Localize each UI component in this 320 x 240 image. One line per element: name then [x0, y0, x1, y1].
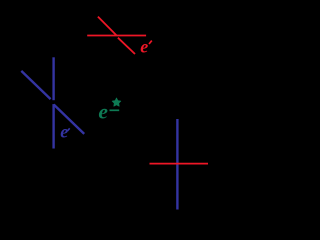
label e' (blue) — [60, 122, 69, 142]
star marker (teal vertex) — [112, 98, 121, 106]
wire: bottom cross red horizontal — [150, 163, 209, 165]
wire: left X blue vertical lower segment — [52, 104, 54, 148]
label e' (red, scattered electron) — [140, 37, 152, 57]
wire: left X blue vertical upper segment — [52, 57, 54, 100]
wire: left X blue diagonal lower segment — [54, 105, 84, 134]
svg-text:e: e — [98, 100, 108, 124]
wire: bottom cross blue vertical — [176, 119, 178, 210]
svg-text:e: e — [60, 122, 68, 142]
wire: top cross red diagonal lower segment — [118, 38, 135, 54]
wire: top cross red diagonal upper segment — [98, 17, 117, 36]
wire: left X blue diagonal upper segment — [21, 71, 50, 99]
svg-text:e: e — [140, 37, 148, 57]
superscript minus of e- — [110, 109, 120, 111]
wire: top cross red horizontal — [87, 35, 146, 37]
